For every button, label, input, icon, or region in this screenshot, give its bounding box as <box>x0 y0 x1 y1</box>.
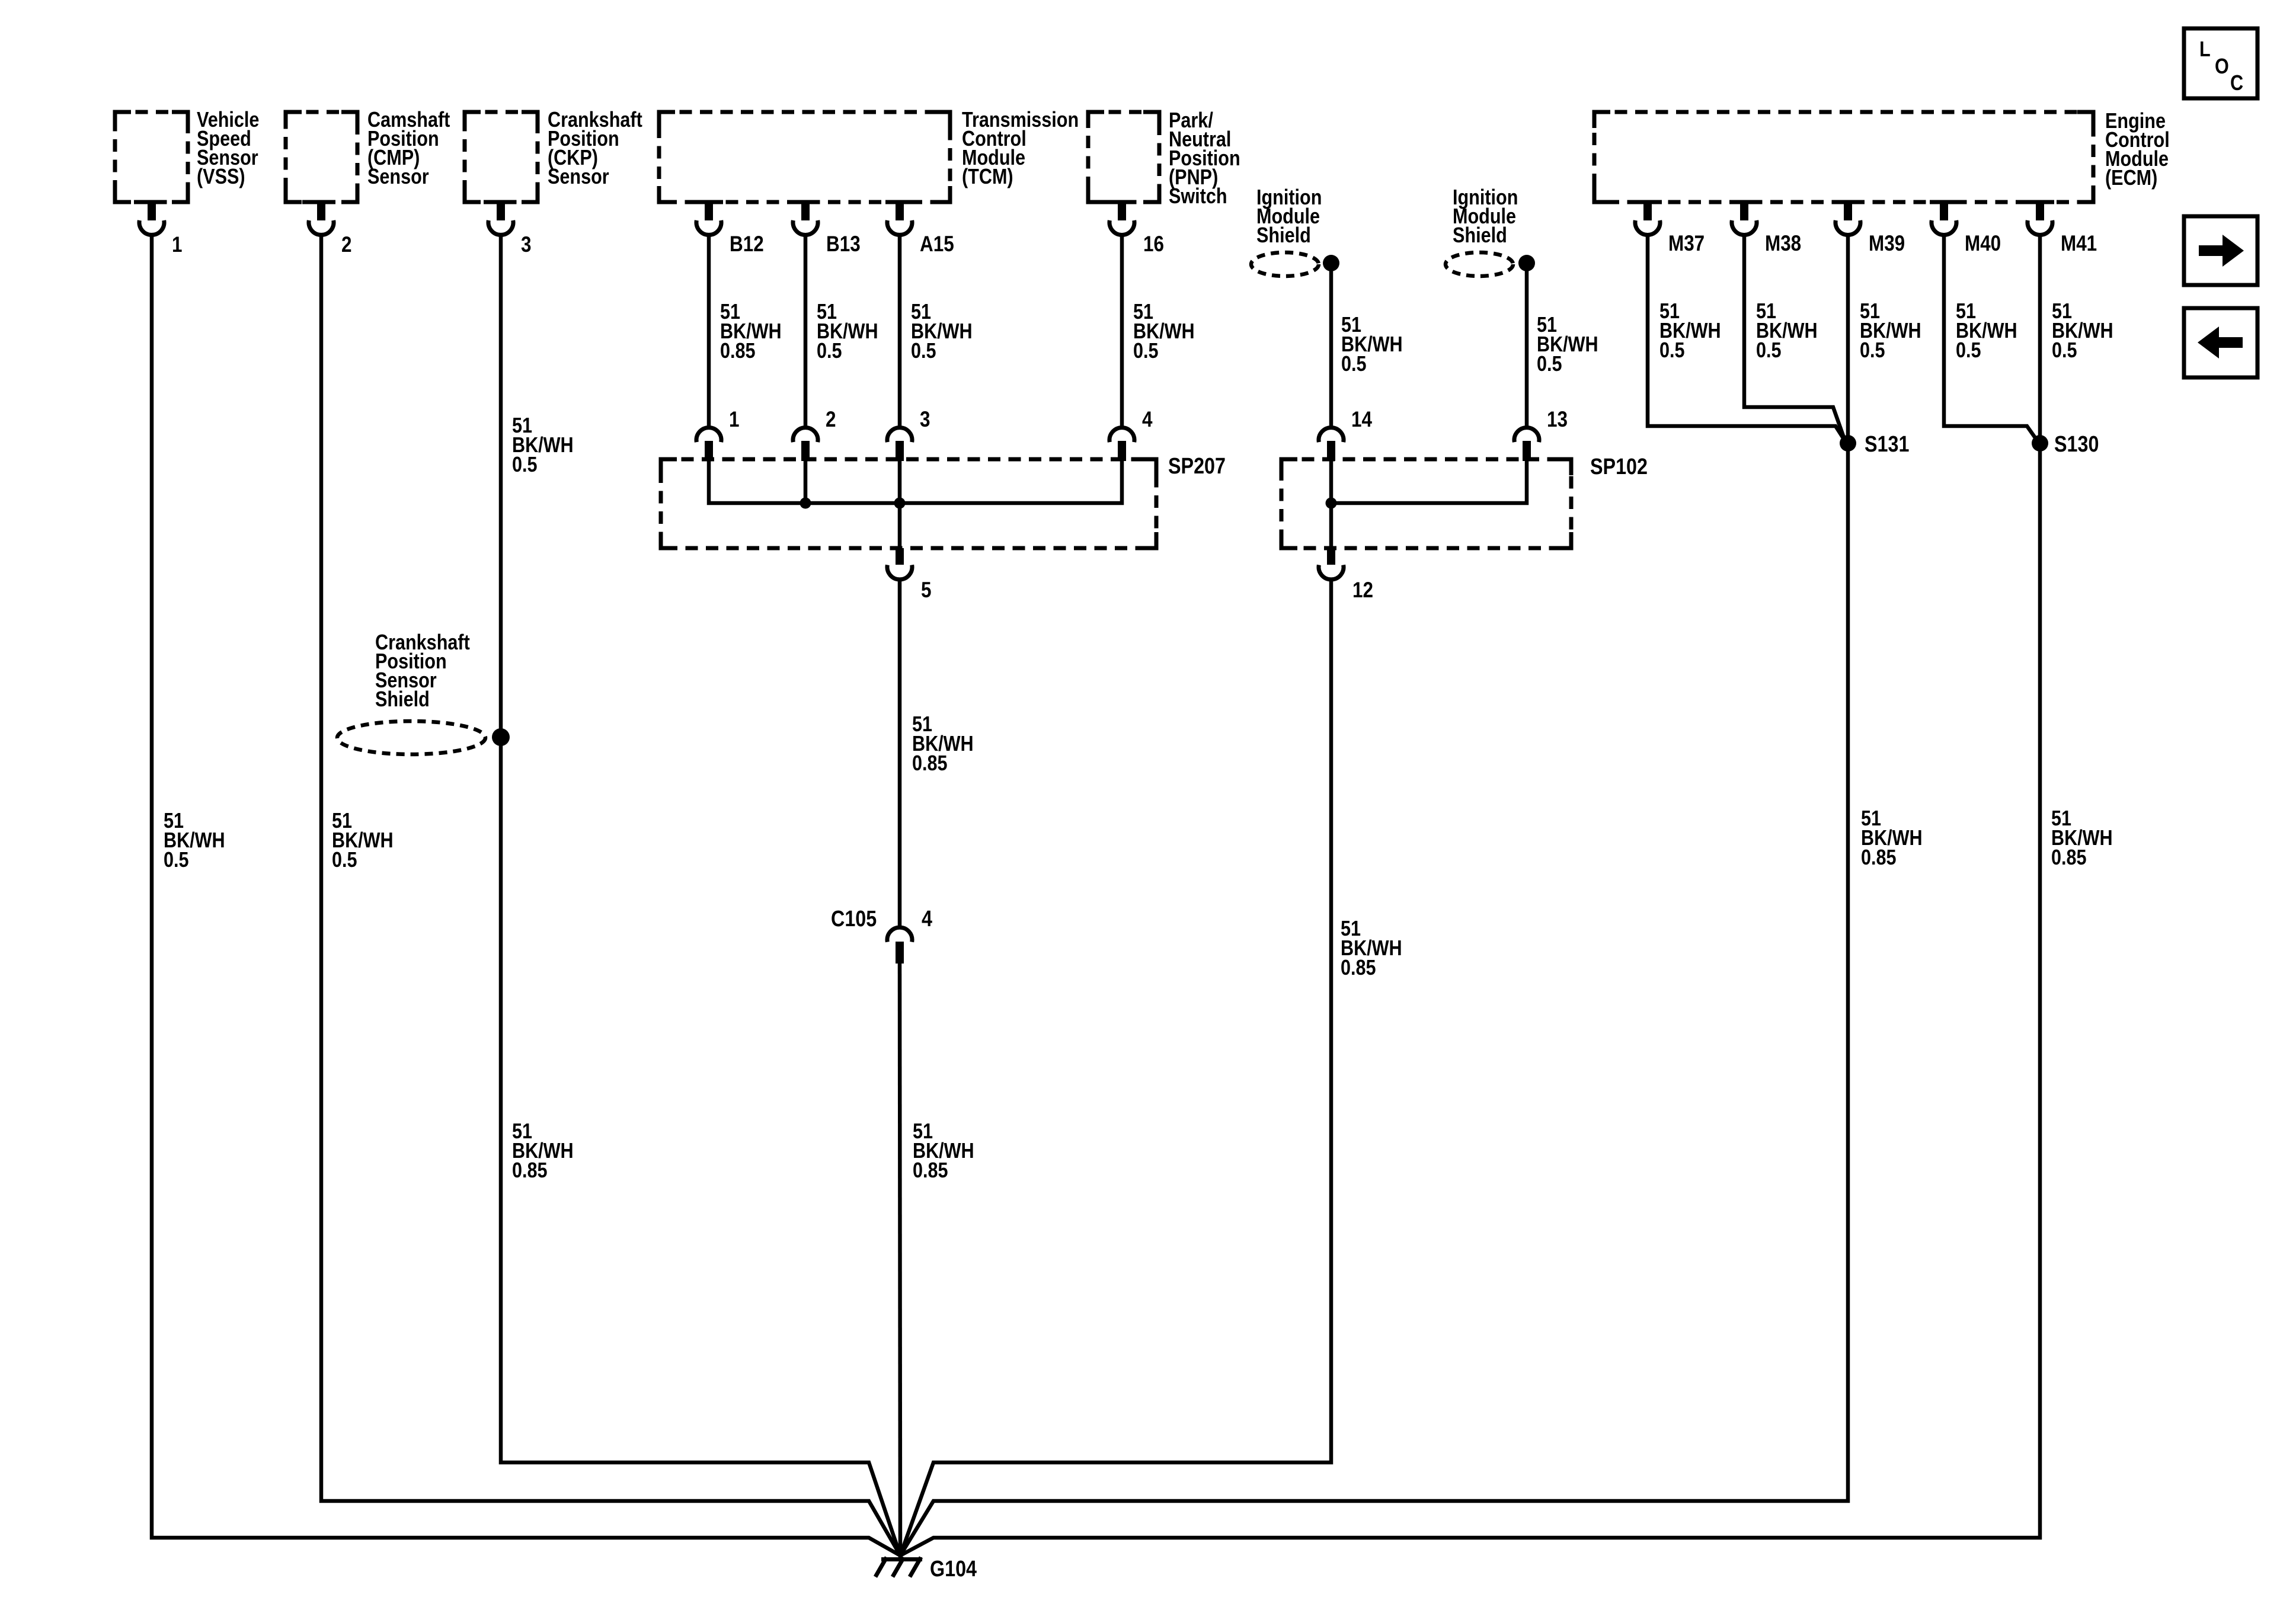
svg-text:0.5: 0.5 <box>911 340 936 363</box>
SP102 exit pin 12 <box>1319 548 1373 603</box>
TCM connector pin A15 <box>885 200 954 257</box>
wire 51 BK/WH 0.5 from VSS pin 1 to G104 <box>152 234 900 1555</box>
svg-text:0.85: 0.85 <box>913 1159 948 1183</box>
svg-text:S131: S131 <box>1865 432 1909 457</box>
svg-text:2: 2 <box>826 408 836 432</box>
svg-text:12: 12 <box>1352 578 1373 603</box>
svg-text:M40: M40 <box>1965 232 2001 256</box>
svg-text:4: 4 <box>922 907 932 932</box>
ECM connector pin M37 <box>1633 200 1705 256</box>
CMP connector pin 2 <box>307 200 351 257</box>
TCM connector pin B12 <box>695 200 764 257</box>
svg-text:A15: A15 <box>920 232 954 257</box>
ECM connector pin M38 <box>1730 200 1801 256</box>
SP207 splice pack box <box>661 459 1156 548</box>
CMP label <box>367 108 450 189</box>
svg-text:0.5: 0.5 <box>1659 339 1685 363</box>
SP207 entry pin 2 <box>793 408 836 461</box>
svg-text:Sensor: Sensor <box>367 165 429 189</box>
svg-text:4: 4 <box>1142 408 1152 432</box>
wire 51 BK/WH 0.5 from TCM B13 to SP207 pin 2 <box>804 234 808 428</box>
splice S131 <box>1840 432 1909 457</box>
wire label below C105 <box>913 1120 974 1183</box>
svg-text:L: L <box>2199 38 2211 62</box>
wire label M37 <box>1659 300 1721 363</box>
wire 51 BK/WH 0.85 from SP102 pin 12 to G104 <box>900 579 1331 1555</box>
ECM connector pin M39 <box>1834 200 1905 256</box>
svg-text:SP102: SP102 <box>1590 454 1648 479</box>
svg-text:14: 14 <box>1351 408 1372 432</box>
wire 51 BK/WH 0.5 from TCM A15 to SP207 pin 3 <box>898 234 902 428</box>
right arrow box <box>2184 216 2257 285</box>
wire 51 BK/WH 0.5 label (CMP) <box>332 809 394 872</box>
Ignition Module Shield (left) label <box>1256 186 1322 248</box>
SP207 label <box>1168 454 1226 479</box>
Vehicle Speed Sensor (VSS) box <box>115 112 188 202</box>
wire label SP102 to ground <box>1341 917 1402 980</box>
wire label M41 <box>2052 300 2113 363</box>
svg-text:C105: C105 <box>831 907 877 932</box>
Ignition Module Shield (left) symbol <box>1251 252 1339 276</box>
svg-text:(VSS): (VSS) <box>197 165 245 189</box>
svg-text:0.5: 0.5 <box>512 453 538 477</box>
wire label M40 <box>1956 300 2017 363</box>
in-line connector C105 pin 4 <box>831 907 932 964</box>
SP207 exit pin 5 <box>887 548 931 603</box>
PNP label <box>1169 109 1240 209</box>
svg-text:0.85: 0.85 <box>720 340 756 363</box>
svg-text:0.85: 0.85 <box>912 752 948 776</box>
ECM connector pin M40 <box>1930 200 2001 256</box>
SP207 junction dot at pin 3 <box>894 498 906 509</box>
Camshaft Position (CMP) Sensor box <box>286 112 357 202</box>
wire 51 BK/WH 0.85 from SP207 pin 5 to C105 <box>898 579 902 926</box>
TCM connector pin B13 <box>791 200 861 257</box>
svg-text:0.5: 0.5 <box>164 849 189 872</box>
LOC legend box <box>2184 28 2257 98</box>
wire 51 BK/WH 0.5 from ECM M40 to S130 <box>1944 234 2037 440</box>
svg-text:Sensor: Sensor <box>548 165 609 189</box>
svg-text:0.5: 0.5 <box>817 340 842 363</box>
splice S130 <box>2032 432 2099 457</box>
SP207 junction dot at pin 2 <box>800 498 811 509</box>
left arrow box <box>2184 308 2257 377</box>
wire 51 BK/WH 0.5 from CMP pin 2 to G104 <box>321 234 900 1555</box>
PNP connector pin 16 <box>1108 200 1164 257</box>
svg-text:O: O <box>2215 55 2229 79</box>
wire label shield right <box>1537 313 1598 376</box>
VSS connector pin 1 <box>137 200 182 257</box>
svg-text:G104: G104 <box>930 1557 977 1582</box>
svg-text:0.5: 0.5 <box>1133 340 1159 363</box>
wire 51 BK/WH 0.5 from ECM M39 through S131 <box>900 234 1848 1555</box>
wire 51 BK/WH 0.85 from C105 to G104 (main) <box>900 964 900 1558</box>
svg-text:Shield: Shield <box>375 688 430 712</box>
svg-text:1: 1 <box>729 408 739 432</box>
wire 51 BK/WH 0.5 from ECM M38 to S131 <box>1744 234 1844 439</box>
svg-text:B12: B12 <box>730 232 764 257</box>
svg-text:0.85: 0.85 <box>512 1159 548 1183</box>
wire label S130 to ground <box>2051 807 2113 870</box>
SP207 entry pin 3 <box>887 408 930 461</box>
svg-text:M39: M39 <box>1869 232 1905 256</box>
svg-text:0.5: 0.5 <box>332 849 357 872</box>
svg-text:B13: B13 <box>826 232 861 257</box>
wire 51 BK/WH 0.5 label (CKP upper) <box>512 414 574 477</box>
SP207 internal bus wire <box>709 460 1122 548</box>
svg-text:3: 3 <box>521 233 531 257</box>
CKP connector pin 3 <box>487 200 531 257</box>
VSS label <box>197 108 259 189</box>
wire label B13 <box>817 300 878 363</box>
wire 51 BK/WH 0.5 label (VSS) <box>164 809 225 872</box>
svg-text:0.5: 0.5 <box>2052 339 2077 363</box>
wire 51 BK/WH 0.5 from PNP pin 16 to SP207 pin 4 <box>1120 234 1124 428</box>
SP102 entry pin 14 <box>1319 408 1372 461</box>
ECM label <box>2105 110 2170 190</box>
Crankshaft Position Sensor Shield symbol <box>337 721 510 754</box>
svg-text:0.85: 0.85 <box>1341 956 1376 980</box>
svg-text:3: 3 <box>920 408 930 432</box>
svg-text:0.85: 0.85 <box>1861 846 1897 870</box>
SP102 internal bus wire <box>1331 460 1527 548</box>
wire 51 BK/WH 0.5 from ECM M37 to S131 <box>1648 234 1845 441</box>
wire label M38 <box>1756 300 1818 363</box>
SP102 splice pack box <box>1281 459 1571 548</box>
Ignition Module Shield (right) symbol <box>1446 252 1535 276</box>
Park/Neutral Position (PNP) Switch box <box>1088 112 1159 202</box>
svg-text:SP207: SP207 <box>1168 454 1226 479</box>
svg-text:Shield: Shield <box>1256 224 1311 248</box>
svg-text:0.5: 0.5 <box>1341 353 1367 376</box>
svg-text:0.5: 0.5 <box>1860 339 1885 363</box>
SP207 entry pin 1 <box>696 408 739 461</box>
svg-text:S130: S130 <box>2054 432 2099 457</box>
wire label above C105 <box>912 713 974 776</box>
CKP label <box>548 108 642 189</box>
svg-text:0.5: 0.5 <box>1956 339 1981 363</box>
wire label A15 <box>911 300 973 363</box>
svg-text:5: 5 <box>921 578 931 603</box>
ground G104 <box>875 1557 977 1582</box>
svg-text:Shield: Shield <box>1453 224 1507 248</box>
svg-text:M41: M41 <box>2061 232 2097 256</box>
SP102 junction dot <box>1326 498 1337 509</box>
wire 51 BK/WH 0.5 from right Ignition Module Shield to SP102 pin 13 <box>1525 263 1529 428</box>
svg-text:0.85: 0.85 <box>2051 846 2087 870</box>
svg-text:M38: M38 <box>1765 232 1801 256</box>
wire 51 BK/WH 0.85 from TCM B12 to SP207 pin 1 <box>707 234 711 428</box>
Ignition Module Shield (right) label <box>1453 186 1518 248</box>
Crankshaft Position (CKP) Sensor box <box>465 112 538 202</box>
Engine Control Module (ECM) box <box>1594 112 2093 202</box>
wire 51 BK/WH from CKP pin 3 through shield to G104 <box>501 234 900 1555</box>
svg-text:0.5: 0.5 <box>1756 339 1782 363</box>
svg-text:1: 1 <box>172 233 182 257</box>
wire label PNP 16 <box>1133 300 1195 363</box>
wire label M39 <box>1860 300 1921 363</box>
TCM label <box>962 108 1079 189</box>
Transmission Control Module (TCM) box <box>659 112 950 202</box>
svg-text:13: 13 <box>1547 408 1568 432</box>
Crankshaft Position Sensor Shield label <box>375 631 470 712</box>
wire label shield left <box>1341 313 1403 376</box>
svg-text:2: 2 <box>341 233 351 257</box>
wire 51 BK/WH 0.5 from left Ignition Module Shield to SP102 pin 14 <box>1329 263 1334 428</box>
svg-text:Switch: Switch <box>1169 185 1227 209</box>
svg-text:0.5: 0.5 <box>1537 353 1562 376</box>
svg-text:(ECM): (ECM) <box>2105 167 2157 190</box>
ECM connector pin M41 <box>2026 200 2097 256</box>
SP207 entry pin 4 <box>1109 408 1152 461</box>
svg-text:16: 16 <box>1143 232 1164 257</box>
svg-text:(TCM): (TCM) <box>962 165 1013 189</box>
wire 51 BK/WH 0.5 from ECM M41 through S130 to G104 <box>900 234 2040 1555</box>
wire label B12 <box>720 300 782 363</box>
wire label S131 to ground <box>1861 807 1923 870</box>
svg-text:C: C <box>2230 72 2243 95</box>
SP102 entry pin 13 <box>1514 408 1568 461</box>
wire 51 BK/WH 0.85 label (CKP lower) <box>512 1120 574 1183</box>
svg-text:M37: M37 <box>1668 232 1705 256</box>
SP102 label <box>1590 454 1648 479</box>
